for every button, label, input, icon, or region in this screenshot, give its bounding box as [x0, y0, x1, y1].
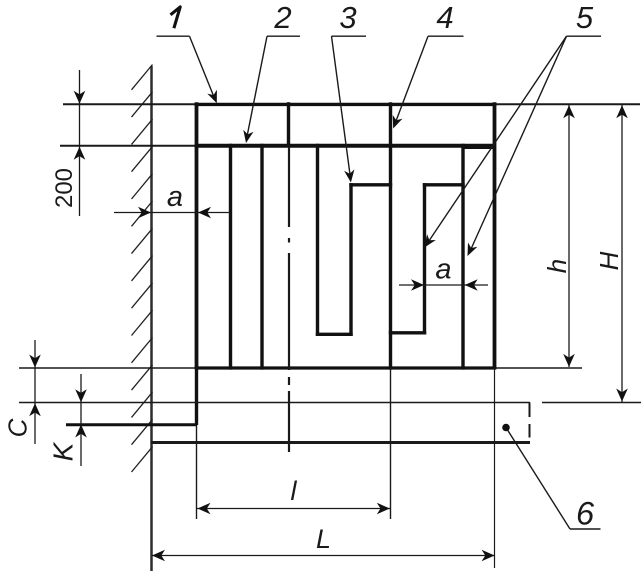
svg-text:200: 200	[51, 168, 78, 208]
dimension a right text	[435, 254, 451, 286]
label 5	[425, 0, 602, 256]
label 4	[393, 0, 464, 129]
svg-text:l: l	[291, 476, 298, 506]
dimension a left line	[114, 207, 230, 219]
label 1	[157, 7, 217, 103]
top plate thick segment	[195, 103, 497, 106]
left edge of structure	[195, 102, 199, 368]
H bottom extension	[542, 402, 641, 404]
step thick line	[66, 423, 197, 426]
cap C-D	[316, 333, 353, 336]
right edge of structure	[493, 102, 497, 368]
top line thin full width	[63, 103, 640, 105]
svg-text:a: a	[167, 181, 183, 213]
bar top line	[19, 402, 530, 404]
label 3	[332, 0, 367, 183]
wall hatching	[132, 65, 153, 473]
dimension h text	[542, 259, 572, 273]
label 2	[243, 0, 300, 143]
cap D-E	[349, 183, 392, 186]
dimension a left text	[167, 181, 183, 213]
bar dashed end	[529, 403, 531, 438]
svg-text:5: 5	[576, 0, 594, 35]
dimension C text	[3, 418, 33, 437]
left edge lower segment	[195, 368, 198, 519]
flange bottom thick	[195, 146, 495, 148]
dimension l line	[197, 503, 390, 515]
svg-text:C: C	[3, 418, 33, 437]
label 6	[502, 424, 600, 532]
dimension 200 text	[51, 168, 78, 208]
dimension a right line	[399, 279, 488, 291]
wall line	[150, 66, 153, 571]
dimension L text	[316, 524, 331, 554]
dimension 200 line	[74, 70, 86, 216]
svg-text:h: h	[542, 259, 572, 273]
svg-text:L: L	[316, 524, 331, 554]
dimension K text	[48, 441, 79, 461]
svg-text:6: 6	[576, 496, 595, 532]
dimension L line	[152, 550, 495, 562]
cap E-F	[389, 331, 426, 334]
svg-text:a: a	[435, 254, 451, 286]
dimension l text	[291, 476, 298, 506]
dimension H line	[616, 105, 628, 403]
fin A	[229, 144, 232, 370]
fin G	[461, 144, 464, 370]
dimension h line	[563, 105, 575, 368]
svg-text:2: 2	[273, 0, 291, 35]
svg-text:H: H	[594, 251, 624, 270]
upright F	[423, 183, 426, 334]
svg-text:3: 3	[339, 0, 356, 35]
fin E	[389, 102, 392, 369]
flange divider	[287, 102, 290, 147]
upright D	[349, 183, 352, 336]
dimension H text	[594, 251, 624, 270]
dimension C line	[29, 340, 41, 444]
right edge extension line	[494, 368, 496, 568]
svg-text:K: K	[48, 441, 79, 461]
centerline dash-dot	[288, 147, 290, 452]
bottom plate thick	[195, 366, 497, 369]
flange bottom thin extension	[60, 145, 197, 147]
fin C	[316, 144, 319, 336]
cap F-G	[423, 183, 465, 186]
dimension K line	[75, 374, 87, 466]
bar bottom line	[151, 441, 530, 444]
bottom line thin extension	[19, 367, 582, 369]
fin B	[260, 144, 263, 370]
fin E extension line	[390, 368, 392, 519]
svg-text:4: 4	[436, 0, 453, 35]
